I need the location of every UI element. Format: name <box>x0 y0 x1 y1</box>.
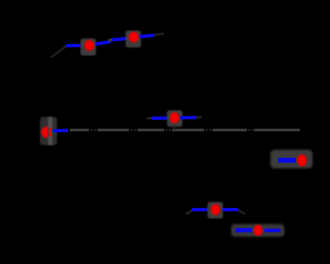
wire top-left diagonal bond <box>51 46 67 58</box>
wire blue C=O thick bond left of O7 <box>236 228 253 232</box>
wire blue C-O bond right of O4 <box>180 116 196 120</box>
atom O6 <box>211 204 221 215</box>
wire blue C-O bond right of O7 <box>265 229 281 233</box>
wire diagonal bond left of bottom ether <box>186 210 193 214</box>
wire blue C-O bond right of O1 <box>96 42 112 45</box>
wire blue C-O bond right of O3 <box>53 129 69 133</box>
wire blue C-O bond left of O2 <box>112 39 127 40</box>
wire long chain segment 1 <box>70 129 89 132</box>
node O3 tall label box (left carbonyl) <box>40 117 57 145</box>
wire blue C=O double bond (right carbonyl) <box>278 158 296 163</box>
node vertex between O1 and O2 <box>109 40 114 41</box>
node carbonyl label box (right) <box>271 150 313 169</box>
atom O5 <box>297 154 307 166</box>
wire blue C-O bond left of O4 <box>152 116 169 120</box>
wire faint bond left of upper ether <box>147 117 153 119</box>
node chain gap dots 3 <box>165 129 167 131</box>
node chain gap dots 2 <box>131 129 133 131</box>
wire vertical double bond strip at O3 <box>48 117 53 145</box>
wire diagonal bond right of bottom ether <box>238 210 245 214</box>
wire blue C-O bond right of O2 <box>140 35 155 36</box>
wire blue C-O bond left of O6 <box>192 208 208 211</box>
atom O1 <box>84 40 94 51</box>
atom O7 <box>254 225 263 236</box>
node chain gap dots 5 <box>248 129 250 131</box>
wire blue C-O bond right of O6 <box>223 208 239 211</box>
node O2 label box <box>126 31 142 48</box>
atom O2 <box>129 32 139 43</box>
wire faint vertical bond from O4 carbon to chain <box>173 126 175 131</box>
node O6 label box <box>208 202 224 219</box>
wire faint bond fading right of top chain <box>154 33 164 35</box>
node O4 label box <box>167 110 183 127</box>
wire long chain segment 6 <box>255 129 301 132</box>
atom O3 right edge ticks <box>49 129 52 131</box>
wire long chain segment 5 <box>213 129 248 132</box>
wire long chain segment 4 <box>172 129 204 132</box>
node chain gap dots 4 <box>206 129 208 131</box>
wire long chain segment 3 <box>138 129 165 132</box>
wire faint bond right of upper ether <box>196 116 202 118</box>
wire long chain segment 2 <box>98 129 130 132</box>
node O1 label box <box>81 39 97 56</box>
atom O4 <box>170 112 180 123</box>
atom O3 <box>41 127 51 138</box>
wire dark slit of double bond over O3 <box>47 126 49 138</box>
wire blue C-O bond left of O1 <box>66 44 82 47</box>
node ester label box (bottom right) <box>231 224 285 237</box>
node chain gap dots 1 <box>91 129 93 131</box>
